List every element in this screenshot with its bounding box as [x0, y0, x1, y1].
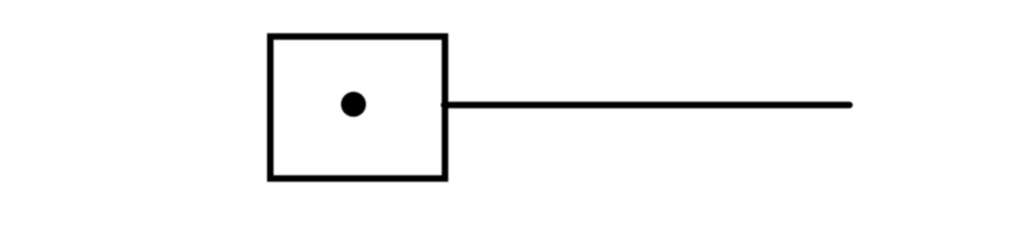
box (square node)	[270, 37, 445, 179]
dot (filled circle inside box)	[341, 92, 366, 117]
wire (horizontal line from box to the right)	[444, 102, 850, 109]
